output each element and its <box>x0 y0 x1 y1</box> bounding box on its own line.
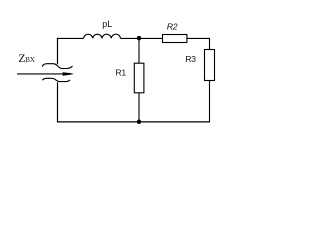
squiggle lower (wire break) <box>42 78 70 81</box>
squiggle upper (wire break) <box>42 64 73 69</box>
wire: bottom horizontal <box>57 121 210 123</box>
wire: top dot down to R1 <box>138 38 140 63</box>
inductor pL <box>84 34 121 38</box>
svg-text:ZВХ: ZВХ <box>18 51 35 65</box>
svg-text:R1: R1 <box>115 68 126 78</box>
svg-text:R2: R2 <box>167 22 178 32</box>
Zвх arrowhead <box>63 72 74 76</box>
Zвх arrow line <box>17 73 64 75</box>
wire: R1 bottom down to bottom dot <box>138 93 140 122</box>
svg-text:R3: R3 <box>185 54 196 64</box>
wire: top-right corner down to R3 <box>209 38 211 50</box>
wire: left vertical upper segment <box>57 38 59 64</box>
svg-text:pL: pL <box>102 19 112 29</box>
node: bottom junction dot <box>137 120 142 125</box>
resistor R2 (horizontal) <box>163 35 187 43</box>
node: top junction dot <box>137 36 142 41</box>
wire: left vertical lower segment <box>57 82 59 122</box>
wire: from R2 right to top-right corner <box>187 37 210 39</box>
wire: R3 bottom down to bottom-right corner <box>209 81 211 123</box>
resistor R3 (vertical) <box>205 50 215 81</box>
wire: top horizontal from inductor to R2 <box>121 37 163 39</box>
wire: top horizontal from left corner to inductor <box>57 37 84 39</box>
resistor R1 (vertical) <box>134 63 144 93</box>
